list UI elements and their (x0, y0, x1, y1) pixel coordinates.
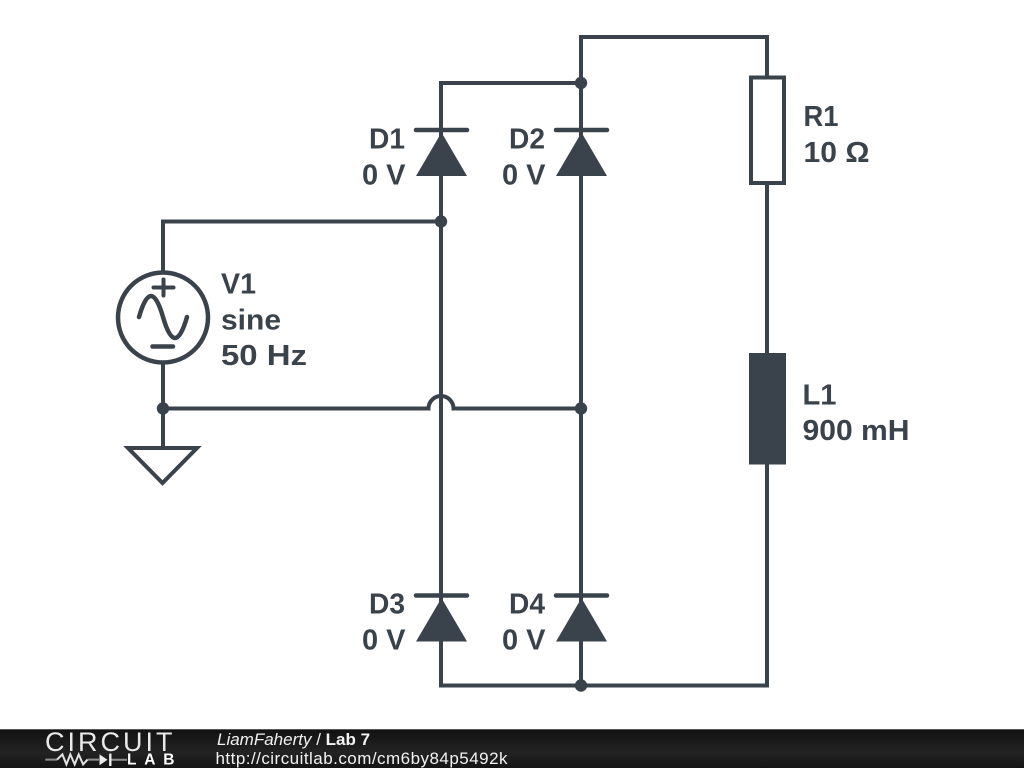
diode D3 (416, 596, 467, 642)
wire: D2/D4 branch column x=581 (579, 35, 583, 688)
svg-text:D2: D2 (509, 124, 545, 156)
footer bar (0, 729, 1024, 768)
diode D4 (556, 596, 607, 642)
label D1 0 V (362, 124, 406, 192)
ground (128, 448, 197, 483)
svg-text:900 mH: 900 mH (803, 415, 910, 447)
svg-text:0 V: 0 V (502, 159, 546, 191)
label D3 0 V (362, 589, 406, 657)
svg-text:R1: R1 (804, 101, 839, 133)
resistor R1 (751, 78, 784, 184)
node: junction D2 top rail (575, 77, 587, 89)
label V1 sine 50 Hz (221, 269, 307, 373)
footer logo resistor-diode glyph (45, 759, 127, 761)
wire: D1/D3 branch column x=441 (439, 81, 443, 688)
svg-text:L1: L1 (803, 379, 837, 411)
label D4 0 V (502, 589, 546, 657)
svg-text:0 V: 0 V (362, 159, 406, 191)
wire: V1 plus terminal horizontal (161, 220, 441, 224)
wire: bottom rail (439, 684, 769, 688)
wire: upper rail D1-top to D2 column (439, 81, 581, 85)
svg-text:D4: D4 (509, 589, 545, 621)
wire: V1 top stem (161, 220, 165, 273)
node: junction V1 plus to D1 column (435, 215, 447, 227)
node: junction V1 minus (157, 402, 169, 414)
wire: right column through R1/L1 (765, 37, 769, 686)
wire: ground stem (161, 409, 165, 447)
svg-text:LiamFaherty / Lab 7: LiamFaherty / Lab 7 (217, 730, 370, 749)
svg-text:D3: D3 (369, 589, 405, 621)
svg-text:sine: sine (221, 304, 281, 336)
diode D1 (416, 130, 467, 176)
diode D2 (556, 130, 607, 176)
svg-text:LAB: LAB (127, 752, 175, 768)
voltage source V1 (118, 273, 208, 363)
svg-text:D1: D1 (369, 124, 405, 156)
label D2 0 V (502, 124, 546, 192)
svg-text:0 V: 0 V (502, 624, 546, 656)
node: junction mid wire D2 column (575, 402, 587, 414)
svg-text:V1: V1 (221, 269, 256, 301)
label R1 10 Ohm (804, 101, 870, 169)
svg-text:0 V: 0 V (362, 624, 406, 656)
svg-text:http://circuitlab.com/cm6by84p: http://circuitlab.com/cm6by84p5492k (216, 749, 509, 768)
wire: mid wire with hop over D1 column (163, 396, 581, 409)
svg-text:50 Hz: 50 Hz (221, 340, 307, 372)
inductor L1 (749, 353, 786, 465)
label L1 900 mH (803, 379, 910, 447)
wire: top rail (579, 35, 769, 39)
wire: V1 bottom stem (161, 362, 165, 411)
svg-text:10 Ω: 10 Ω (804, 137, 870, 169)
node: junction bottom rail D4 (575, 679, 587, 691)
